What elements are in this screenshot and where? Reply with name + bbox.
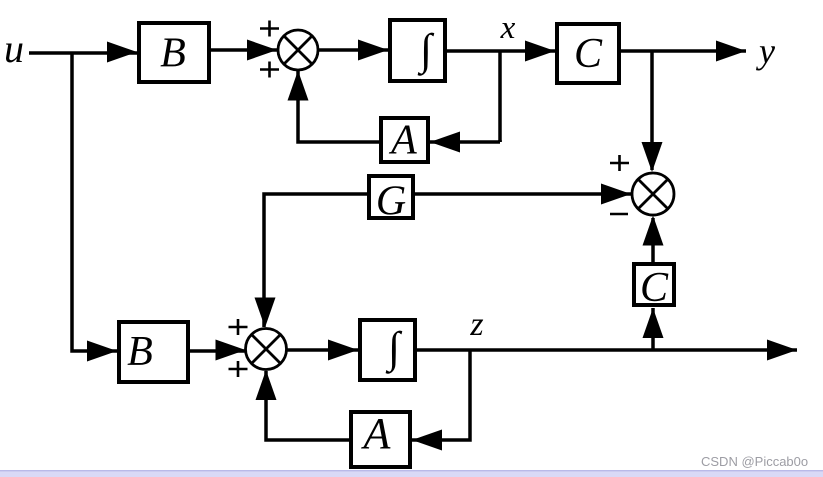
arrowhead into C1 [525,41,555,62]
arrowhead into A2 [412,430,442,451]
block C2 [634,264,674,305]
arrowhead z output [767,340,797,361]
svg-text:G: G [376,179,406,225]
wire z line to right output [417,348,797,352]
bottom bar [0,470,823,472]
arrowhead into sum3 bottom [256,370,277,400]
wire u branch vertical down to bottom row [72,53,117,351]
plus sign sum2 [610,155,629,171]
wire A1 output to sum1 bottom [298,71,379,142]
wire y branch down to sum2 [650,51,654,170]
arrowhead into sum3 top [255,298,276,328]
arrowhead into sum2 left [601,184,631,205]
block G [369,176,413,218]
svg-text:z: z [469,306,483,343]
wire sum3 to I2 [287,348,358,352]
block B2 [119,322,188,382]
wire C2 to sum2 bottom [651,218,655,262]
block A2 [351,412,410,467]
wire I1 to C1 with node x branch [447,49,555,53]
block A1 [381,118,428,162]
arrowhead into sum3 left [216,340,246,361]
plus sign sum3 top [229,319,248,335]
svg-text:CSDN @Piccab0o: CSDN @Piccab0o [701,454,808,469]
minus sign sum2 [610,213,628,216]
summing junction sum2 [632,173,674,215]
arrowhead into C2 bottom [643,308,664,338]
wire C1 to y output [621,49,746,53]
arrowhead into B1 [107,42,137,63]
arrowhead into sum2 top [642,142,663,172]
integrator I1 [390,20,445,81]
wire A2 output to sum3 bottom [266,371,349,440]
wire A1 input: from x branch down and left [430,140,500,142]
wire z branch down to A2 [412,350,470,440]
integrator I2 [360,320,415,380]
svg-text:B: B [127,329,153,375]
summing junction sum1 [278,30,318,70]
arrowhead into sum2 bottom [643,216,664,246]
wire G output to sum2 [415,192,631,196]
arrowhead into A1 [430,132,460,153]
block B1 [139,23,209,82]
arrowhead into B2 [87,341,117,362]
summing junction sum3 [246,329,287,370]
wire x branch down [498,51,502,142]
arrowhead output y [716,41,746,62]
arrowhead into I2 [328,340,358,361]
wire G input from vertical riser [264,194,367,327]
svg-text:B: B [160,31,186,77]
plus sign sum1 top [260,21,279,37]
wire B2 to sum3 [190,349,245,353]
arrowhead into sum1 [247,40,277,61]
svg-text:y: y [756,31,775,71]
plus sign sum3 bottom [229,361,248,377]
svg-text:x: x [500,10,516,46]
arrowhead into sum1 bottom [288,71,309,101]
svg-text:C: C [574,31,603,77]
svg-text:u: u [4,26,24,71]
wire u to B1 [29,51,137,55]
svg-text:A: A [388,118,417,164]
svg-text:A: A [361,409,392,458]
wire sum1 to I1 [318,48,388,52]
wire B1 to sum1 [211,48,277,52]
arrowhead into I1 [358,40,388,61]
plus sign sum1 bottom [260,62,279,78]
block C1 [557,24,619,83]
svg-text:C: C [640,265,669,311]
wire z line to C2 input [651,308,655,349]
